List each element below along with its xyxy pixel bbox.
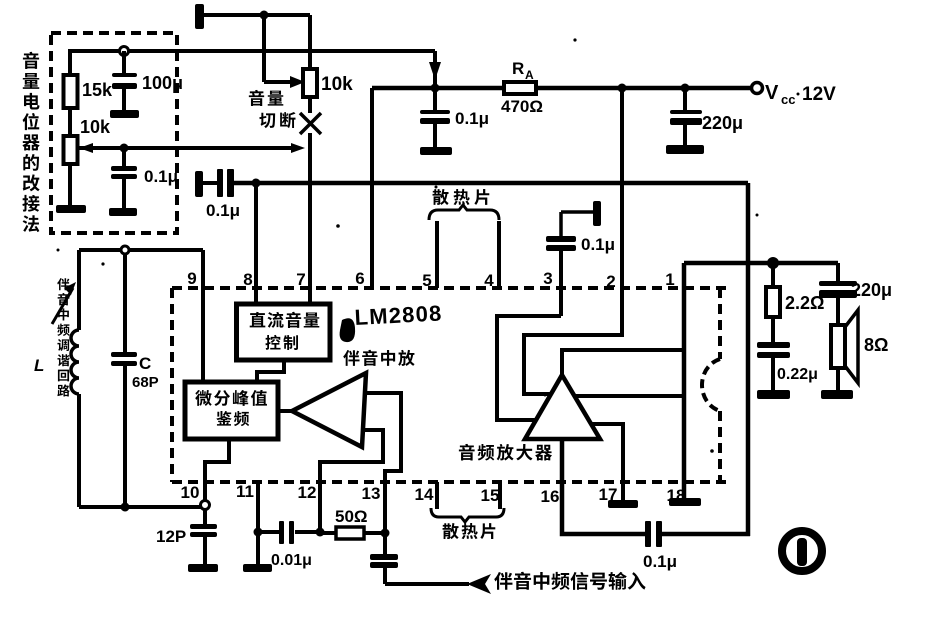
capacitor 0.1u (pin 3): [546, 236, 576, 242]
left dashed box (alternate volume-pot connection): [51, 33, 177, 233]
Vcc rail y88: [372, 86, 506, 91]
junction dot 2.2 branch: [767, 257, 779, 269]
wire amp apex to pin 1 net: [562, 350, 684, 375]
svg-text:470Ω: 470Ω: [501, 97, 543, 116]
svg-text:10: 10: [181, 483, 200, 502]
svg-text:V: V: [765, 82, 779, 104]
capacitor 0.1u (input coupling): [203, 181, 218, 185]
svg-text:5: 5: [422, 271, 431, 290]
tank bottom wire: [79, 505, 201, 509]
capacitor 220u (supply): [683, 88, 687, 111]
svg-text:13: 13: [362, 484, 381, 503]
resistor 15k: [64, 75, 78, 108]
adjust arrow: [52, 288, 73, 324]
svg-text:11: 11: [236, 482, 254, 501]
svg-text:3: 3: [543, 269, 552, 288]
ground (12P): [188, 564, 218, 572]
svg-text:0.1μ: 0.1μ: [455, 109, 489, 128]
svg-text:cc: cc: [781, 92, 795, 107]
svg-text:0.1μ: 0.1μ: [206, 201, 240, 220]
pin 4 stub: [497, 221, 501, 288]
node open circle: [120, 47, 129, 56]
capacitor 0.1u (left box): [122, 148, 126, 167]
svg-text:10k: 10k: [80, 117, 111, 137]
label 音量: [249, 90, 264, 106]
terminal bar (top center): [195, 4, 204, 29]
heatsink bracket top: [429, 205, 499, 220]
wire discriminator to pin 10: [205, 439, 229, 500]
wire pin 3: [559, 251, 563, 316]
potentiometer 10k (left box): [64, 136, 78, 164]
svg-text:R: R: [512, 59, 524, 78]
svg-text:0.22μ: 0.22μ: [777, 366, 818, 383]
pin 5 stub: [435, 221, 439, 288]
wire pin 9: [201, 250, 205, 382]
ground (0.1u left box): [109, 208, 137, 216]
wire terminal to pot top: [204, 13, 310, 17]
wire to 0.1u pin3: [561, 210, 593, 214]
vertical label 伴音中频调谐回路: [57, 278, 69, 290]
wire pin 6 drop: [370, 88, 374, 288]
block discriminator 微分峰值鉴频: [185, 382, 278, 439]
svg-text:68P: 68P: [132, 374, 159, 391]
ground (220u): [666, 145, 704, 154]
cut mark X: [300, 113, 321, 134]
capacitor 12P: [203, 509, 207, 525]
wire box to discriminator: [257, 360, 284, 382]
svg-text:2.2Ω: 2.2Ω: [785, 293, 824, 313]
svg-text:C: C: [139, 354, 151, 373]
terminal bar (IF input): [195, 171, 203, 197]
pin 15 stub: [498, 482, 502, 509]
junction dot 220u: [681, 84, 690, 93]
svg-text:0.1μ: 0.1μ: [581, 235, 615, 254]
capacitor 0.1u (pin 13 input): [370, 554, 398, 560]
svg-text:12: 12: [298, 483, 317, 502]
svg-text:100μ: 100μ: [142, 73, 183, 93]
svg-text:4: 4: [484, 271, 494, 290]
label 切断: [259, 113, 275, 128]
wire pin1/pin18 vertical: [682, 263, 687, 498]
capacitor 0.1u (feedback): [645, 521, 651, 547]
terminal Vcc 12V: [752, 83, 763, 94]
pin 14 stub: [435, 482, 439, 509]
wire y51 corner down with arrow: [433, 51, 437, 88]
specks: [573, 38, 576, 41]
ground (zobel): [757, 390, 790, 399]
wire pin 13: [383, 482, 387, 555]
junction dot pin 8: [252, 179, 261, 188]
wire wiper drop: [262, 15, 266, 82]
wire right rail down: [746, 183, 751, 536]
figure number 1 circled: [782, 531, 822, 571]
wire 15k to 10k: [68, 49, 72, 75]
terminal bar (pin3 bypass): [593, 201, 601, 226]
svg-text:16: 16: [541, 487, 560, 506]
wire pin 12: [318, 482, 322, 533]
svg-text:0.1μ: 0.1μ: [144, 167, 178, 186]
block DC volume control 直流音量控制: [237, 304, 331, 360]
junction dot pin 13 node: [381, 529, 390, 538]
node open circle tank: [121, 246, 129, 254]
label 伴音中频信号输入: [494, 572, 512, 590]
svg-text:2: 2: [606, 272, 615, 291]
wire IF amp to pin 12: [320, 430, 383, 482]
junction dot tank bottom: [121, 503, 130, 512]
wire top node rail y51: [69, 49, 435, 53]
label 音频放大器: [459, 444, 475, 461]
junction dot: [260, 11, 269, 20]
ink blob: [340, 318, 355, 342]
wiper arrow into pot 10k: [264, 80, 296, 84]
wire Vcc to pin 2: [620, 88, 624, 288]
wiper wire y148 to cut point: [78, 146, 299, 150]
wire amp tap to pin 17: [591, 424, 623, 500]
op-amp U1 IF amplifier triangle: [292, 373, 366, 447]
svg-text:15k: 15k: [82, 80, 113, 100]
svg-text:12V: 12V: [802, 84, 836, 105]
pin 10 open circle: [201, 501, 210, 510]
svg-text:220μ: 220μ: [851, 280, 892, 300]
capacitor 0.01u: [295, 530, 320, 534]
capacitor 220u (output): [836, 263, 840, 282]
svg-text:L: L: [34, 356, 44, 375]
label 伴音中放: [343, 350, 359, 366]
input wire: [385, 582, 469, 586]
input rail y183: [234, 181, 748, 186]
svg-text:0.01μ: 0.01μ: [271, 552, 312, 569]
resistor 2.2 (zobel): [771, 263, 775, 287]
wire pin 16: [562, 439, 646, 534]
svg-text:8Ω: 8Ω: [864, 335, 888, 355]
heatsink bracket bottom: [431, 508, 504, 522]
ground (15k/10k): [56, 205, 86, 213]
junction dot pin2 drop: [618, 84, 627, 93]
wire pin 11 to ground: [256, 482, 260, 564]
label 散热片 (bottom heatsink): [443, 523, 459, 539]
svg-text:10k: 10k: [321, 74, 353, 95]
wire 10k bottom to ground: [68, 164, 72, 206]
ground (pin 11): [243, 564, 272, 572]
input arrow: [467, 574, 491, 594]
inductor L: [77, 250, 81, 330]
junction dot pin 12 node: [316, 528, 325, 537]
wire pot to pin 7: [308, 97, 312, 113]
svg-text:14: 14: [415, 485, 434, 504]
ground (speaker): [821, 390, 853, 399]
svg-text:8: 8: [243, 270, 252, 289]
tuned circuit top wire: [79, 248, 203, 252]
svg-text:0.1μ: 0.1μ: [643, 552, 677, 571]
vertical label 音量电位器的改接法: [23, 52, 39, 69]
wire amp right tap: [575, 394, 684, 398]
wire discriminator to IF amp: [278, 409, 292, 413]
svg-text:LM2808: LM2808: [354, 300, 443, 330]
junction dot pin 11 node: [254, 528, 263, 537]
ground (pin 18): [669, 498, 701, 506]
svg-text:6: 6: [355, 269, 364, 288]
op-amp U2 audio amplifier triangle: [525, 375, 600, 439]
svg-text:220μ: 220μ: [702, 113, 743, 133]
capacitor 100u (left box): [122, 51, 126, 75]
ground (100u): [110, 110, 139, 118]
label 散热片 (top heatsink): [433, 189, 449, 205]
ground (pin 17): [608, 500, 638, 508]
wire pin 8: [254, 183, 258, 304]
svg-text:15: 15: [481, 486, 500, 505]
svg-text:7: 7: [296, 270, 305, 289]
svg-text:12P: 12P: [156, 527, 186, 546]
svg-text:1: 1: [665, 270, 674, 289]
resistor RA 470: [504, 82, 536, 94]
wire IF amp out to pin 13: [365, 393, 401, 482]
wire pin 2 to amp input: [524, 288, 622, 394]
ground (0.1u RA node): [420, 147, 452, 155]
svg-text:50Ω: 50Ω: [335, 507, 368, 526]
junction dot RA left node: [431, 84, 440, 93]
wire pin 3 to amp input: [497, 316, 561, 420]
capacitor 0.22u (zobel): [771, 317, 775, 343]
capacitor 0.1u (RA node): [433, 88, 437, 111]
junction dot: [120, 144, 129, 153]
svg-text:A: A: [525, 68, 534, 82]
speaker 8 ohm: [845, 310, 858, 383]
IC dashed box LM2808: [172, 286, 726, 290]
output rail to speaker: [684, 261, 838, 266]
potentiometer 10k (volume): [308, 15, 312, 69]
capacitor C 68P: [123, 254, 127, 353]
svg-text:9: 9: [187, 269, 196, 288]
